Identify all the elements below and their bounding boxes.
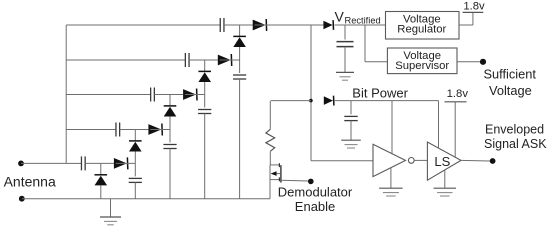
antenna terminal bottom dot [19, 196, 25, 202]
svg-text:Regulator: Regulator [397, 24, 446, 36]
wire supervisor output [457, 61, 480, 63]
wire bit power rail [335, 100, 439, 102]
storage capacitor stage3 [204, 95, 206, 108]
junction node stage1 [100, 163, 102, 174]
shunt diode stage4 (to node below) [198, 71, 211, 82]
wire stage2 storage cap to ground rail [169, 149, 171, 199]
wire LS supply tap from 1.8v [454, 102, 456, 158]
junction node stage3 [169, 95, 171, 106]
wire cap to ground [344, 47, 346, 73]
wire stage1 shunt diode to lower node [100, 185, 102, 198]
wire feed row stage2 [66, 129, 116, 131]
wire stage3 diode output to storage node [185, 94, 205, 96]
svg-text:Supervisor: Supervisor [395, 60, 449, 72]
svg-text:LS: LS [434, 154, 450, 169]
wire LS ground stem [444, 170, 446, 188]
wire node X vertical (envelope node) [310, 25, 312, 161]
svg-text:Signal ASK: Signal ASK [484, 137, 547, 151]
wire stage4 storage cap to ground rail [239, 79, 241, 199]
wire stage1 diode output to storage node [116, 162, 136, 164]
transistor demodulator enable NMOS [270, 163, 281, 199]
antenna terminal top dot [18, 161, 24, 167]
junction node stage4 [204, 60, 206, 71]
wire stage5 cap to diode [224, 24, 253, 26]
series diode stage2 [148, 124, 162, 136]
svg-text:Enveloped: Enveloped [485, 122, 544, 136]
wire resistor branch from bit power node [271, 100, 311, 102]
wire inverter1 power tap from bit power [391, 101, 393, 154]
junction dot node X / bit power branch [309, 99, 313, 103]
shunt diode stage2 (to node below) [129, 141, 142, 152]
svg-text:V: V [335, 8, 345, 24]
block Voltage Supervisor [387, 48, 457, 74]
level shifter LS triangle [427, 142, 461, 180]
coupling capacitor stage3 [151, 88, 155, 102]
svg-text:Antenna: Antenna [4, 173, 56, 189]
coupling capacitor stage4 [185, 53, 189, 67]
svg-text:Demodulator: Demodulator [278, 185, 353, 200]
coupling capacitor stage1 [81, 156, 85, 170]
shunt diode stage5 (to node below) [233, 36, 246, 47]
block Voltage Regulator [386, 12, 460, 40]
terminal dot Demodulator Enable [308, 179, 314, 185]
wire stage2 diode output to storage node [150, 129, 170, 131]
wire regulator output to 1.8v supply [459, 24, 473, 26]
wire stage4 diode output to storage node [220, 59, 240, 61]
wire stage3 cap to diode [154, 94, 183, 96]
wire antenna top lead [21, 162, 66, 164]
wire stage1 storage cap to ground rail [134, 182, 136, 198]
shunt diode stage1 (to node below) [95, 175, 108, 186]
ground symbol level shifter [434, 188, 457, 196]
wire feed row stage3 [66, 94, 150, 96]
storage capacitor stage4 [239, 60, 241, 73]
inverter 1 output bubble [408, 158, 414, 164]
wire transistor gate to demodulator enable [281, 179, 308, 182]
series diode stage4 [218, 54, 232, 66]
terminal dot Enveloped Signal ASK [490, 158, 496, 164]
rectifier output diode (to V Rectified) [311, 24, 323, 26]
wire LS supply tap from bit power side [438, 101, 440, 149]
svg-text:Voltage: Voltage [489, 83, 532, 98]
storage capacitor stage2 [169, 130, 171, 143]
wire ground rail bottom [22, 198, 270, 200]
terminal dot Sufficient Voltage [480, 59, 486, 65]
ground symbol V Rectified cap [336, 72, 354, 80]
wire stage5 shunt diode to lower node [239, 47, 241, 60]
wire LS output [461, 159, 490, 162]
wire top row diode output to node X [255, 24, 312, 26]
coupling capacitor stage2 [116, 123, 120, 137]
wire left feed bus vertical [65, 25, 67, 163]
ground symbol bit power cap [341, 140, 361, 148]
bit power diode [324, 96, 334, 106]
svg-text:1.8v: 1.8v [463, 1, 485, 13]
wire branch to voltage supervisor [364, 25, 366, 62]
wire resistor to transistor drain [269, 151, 271, 165]
wire bit power cap to ground [350, 121, 352, 141]
wire stage4 cap to diode [189, 59, 218, 61]
svg-text:Sufficient: Sufficient [484, 67, 537, 82]
wire V Rectified rail [335, 24, 386, 26]
wire stage2 shunt diode to lower node [134, 152, 136, 164]
supply bar 1.8v (level shifter) [445, 101, 467, 103]
wire feed row stage4 [66, 59, 185, 61]
shunt diode stage3 (to node below) [164, 106, 177, 117]
wire stage1 cap to diode [85, 162, 114, 164]
wire inverter input from node X [311, 160, 373, 162]
svg-text:Bit Power: Bit Power [352, 85, 408, 100]
wire stage3 storage cap to ground rail [204, 114, 206, 199]
wire feed row stage5 [66, 24, 220, 26]
supply bar 1.8v (regulator output) [463, 11, 484, 13]
wire stage4 shunt diode to lower node [204, 82, 206, 95]
series diode stage1 [114, 157, 128, 169]
wire stage3 shunt diode to lower node [169, 117, 171, 130]
storage capacitor stage1 [134, 163, 136, 176]
smoothing capacitor on Bit Power [350, 101, 352, 115]
svg-text:Enable: Enable [295, 199, 335, 214]
smoothing capacitor on V Rectified [344, 25, 346, 40]
series diode stage3 [183, 89, 197, 101]
wire inverter1 to level shifter [414, 159, 427, 161]
ground symbol inverter 1 [379, 188, 403, 196]
svg-text:Rectified: Rectified [345, 15, 381, 25]
wire inverter1 ground stem [390, 168, 392, 188]
coupling capacitor stage5 [220, 18, 224, 32]
wire stage2 cap to diode [120, 129, 149, 131]
svg-text:1.8v: 1.8v [447, 88, 469, 100]
series diode stage5 [253, 19, 267, 31]
junction node stage5 [239, 25, 241, 36]
wire antenna to coupling cap [66, 162, 81, 164]
resistor (demodulator pull-down) [266, 129, 275, 151]
junction node stage2 [134, 130, 136, 141]
inverter 1 triangle [373, 144, 406, 176]
ground symbol main (below rail) [110, 199, 112, 217]
